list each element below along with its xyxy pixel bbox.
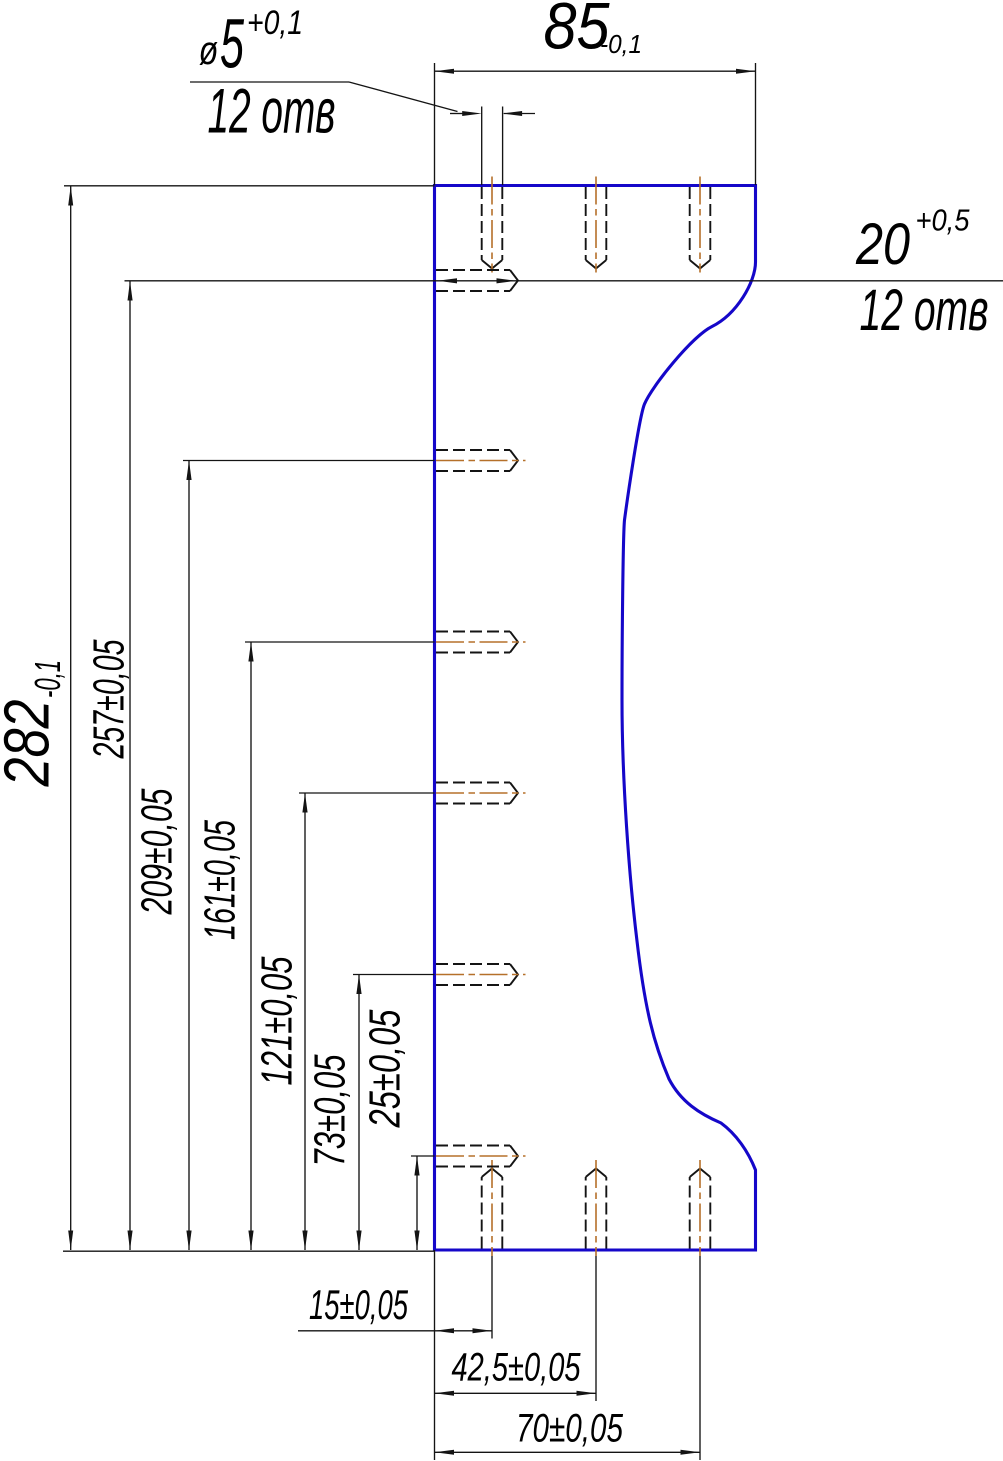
svg-text:15±0,05: 15±0,05	[309, 1281, 408, 1328]
svg-text:25±0,05: 25±0,05	[361, 1009, 410, 1128]
svg-text:ø: ø	[199, 27, 219, 73]
svg-text:20: 20	[855, 212, 910, 277]
svg-text:209±0,05: 209±0,05	[133, 788, 182, 915]
svg-text:5: 5	[220, 5, 245, 83]
svg-text:121±0,05: 121±0,05	[253, 956, 302, 1085]
svg-text:282: 282	[0, 700, 63, 788]
svg-text:70±0,05: 70±0,05	[516, 1407, 624, 1451]
svg-text:-0,1: -0,1	[27, 660, 68, 698]
svg-text:42,5±0,05: 42,5±0,05	[452, 1346, 582, 1390]
svg-text:161±0,05: 161±0,05	[196, 820, 245, 940]
svg-text:12 отв: 12 отв	[208, 77, 336, 147]
svg-text:73±0,05: 73±0,05	[306, 1054, 355, 1166]
svg-text:-0,1: -0,1	[600, 29, 642, 59]
svg-text:+0,5: +0,5	[916, 203, 971, 238]
svg-text:257±0,05: 257±0,05	[85, 639, 134, 759]
svg-text:+0,1: +0,1	[247, 4, 303, 42]
svg-text:12 отв: 12 отв	[860, 278, 989, 343]
